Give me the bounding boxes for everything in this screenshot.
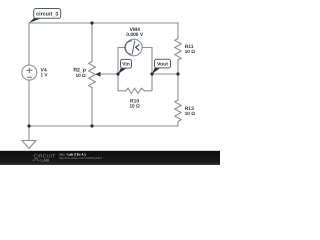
svg-text:circuit_3: circuit_3 [36, 11, 58, 17]
voltmeter VM4 [125, 39, 142, 56]
node R2_p top junction [90, 21, 93, 24]
resistor R11 [175, 39, 181, 61]
wire R2_p bottom lead [91, 88, 93, 127]
node R11/R13 junction [176, 72, 179, 75]
wire voltmeter right leg [142, 48, 152, 75]
wire R11 top lead [177, 23, 179, 39]
resistor R10 [118, 88, 152, 93]
wire bottom horizontal [29, 125, 178, 127]
flag circuit_3 [29, 9, 61, 24]
svg-text:10 Ω: 10 Ω [185, 49, 196, 54]
resistor R2_p (potentiometer) [89, 62, 96, 88]
svg-text:10 Ω: 10 Ω [129, 103, 140, 108]
wire Vout to R11/R13 junction [152, 73, 178, 75]
wire Vin node down to R10 left [117, 74, 119, 91]
wiper arrow of R2_p [100, 73, 118, 75]
svg-text:http://circuitlab.com/c6kz5bp7: http://circuitlab.com/c6kz5bp7dn4 [59, 156, 102, 160]
wire R11 bottom lead [177, 60, 179, 74]
CircuitLab logo [33, 153, 56, 162]
wire R13 top lead [177, 74, 179, 100]
svg-text:0.000 V: 0.000 V [126, 32, 144, 38]
svg-text:Vout: Vout [157, 61, 168, 67]
node Vin junction [116, 72, 119, 75]
svg-text:VM4: VM4 [129, 27, 140, 33]
ground [22, 141, 36, 149]
svg-text:Vin: Vin [122, 62, 130, 68]
wire voltmeter left leg [118, 48, 125, 75]
wire Vout node down to R10 right [151, 74, 153, 91]
node Vout junction [150, 72, 153, 75]
node R2_p bottom junction [90, 124, 93, 127]
wire ground stub [28, 126, 30, 141]
resistor R13 [175, 100, 181, 122]
svg-text:LAB: LAB [41, 158, 50, 163]
wire top horizontal [29, 22, 178, 24]
svg-text:10 Ω: 10 Ω [185, 111, 196, 116]
wire R2_p top lead [91, 23, 93, 62]
wire left vertical upper [28, 23, 30, 66]
wire left vertical lower [28, 80, 30, 127]
svg-text:10 Ω: 10 Ω [76, 73, 87, 78]
flag Vout [152, 59, 171, 74]
node ground junction [27, 124, 30, 127]
wire R13 bottom lead [177, 122, 179, 127]
svg-text:1 V: 1 V [41, 72, 49, 77]
voltage source V4 [22, 65, 37, 80]
flag Vin [118, 59, 132, 74]
